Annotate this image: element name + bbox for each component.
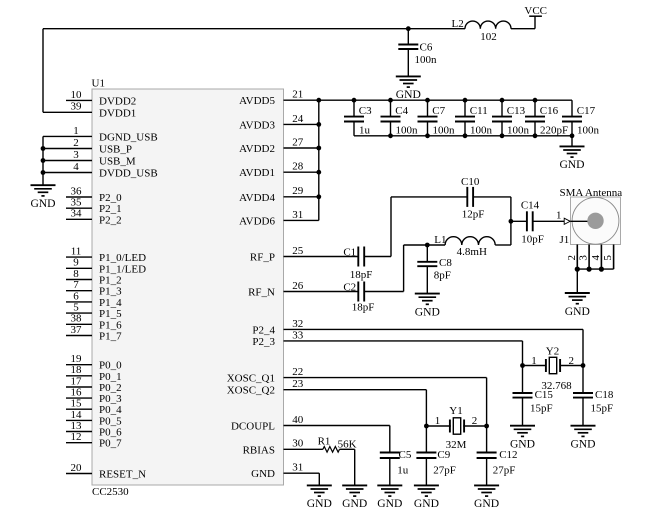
svg-text:C11: C11 <box>470 105 488 117</box>
svg-text:31: 31 <box>292 462 303 474</box>
pin 5 P1_5 <box>66 312 92 314</box>
IC U1 CC2530 body <box>92 89 284 485</box>
svg-text:18pF: 18pF <box>352 302 375 314</box>
svg-text:1: 1 <box>556 210 562 222</box>
junction Y1 pin2 node <box>484 424 489 429</box>
svg-text:Y2: Y2 <box>546 346 559 358</box>
svg-text:P1_0/LED: P1_0/LED <box>99 252 146 264</box>
svg-text:GND: GND <box>30 197 55 210</box>
wire top rail to L2 <box>43 28 465 30</box>
junction antenna bus <box>599 267 604 272</box>
ground C9 <box>414 485 439 496</box>
svg-text:AVDD1: AVDD1 <box>239 167 275 179</box>
capacitor C16 <box>525 100 545 136</box>
svg-text:1u: 1u <box>397 464 409 476</box>
junction C17 bottom <box>570 133 575 138</box>
svg-text:P1_7: P1_7 <box>99 331 122 343</box>
junction cap top <box>533 98 538 103</box>
pin 18 P0_1 <box>66 375 92 377</box>
svg-text:USB_P: USB_P <box>99 144 132 156</box>
pin 20 RESET_N <box>66 473 92 475</box>
svg-text:GND: GND <box>251 468 275 480</box>
svg-text:C1: C1 <box>343 246 356 258</box>
wire P2_4 down to Y2 pin2 <box>582 329 584 365</box>
svg-text:RESET_N: RESET_N <box>99 469 146 481</box>
wire USB ground vertical <box>42 136 44 185</box>
svg-text:AVDD5: AVDD5 <box>239 95 275 107</box>
junction node T <box>509 219 514 224</box>
svg-text:L1: L1 <box>434 234 446 246</box>
svg-text:27pF: 27pF <box>493 464 516 476</box>
junction pin2 <box>41 146 46 151</box>
wire L2 to VCC <box>511 28 535 30</box>
svg-text:VCC: VCC <box>524 5 547 17</box>
pin 36 P2_0 <box>66 196 92 198</box>
junction cap bottom <box>533 133 538 138</box>
svg-text:DVDD1: DVDD1 <box>99 107 136 119</box>
svg-text:100n: 100n <box>396 124 419 136</box>
wire C10 right down to L1 <box>510 197 512 245</box>
svg-text:102: 102 <box>480 31 497 43</box>
junction cap top <box>500 98 505 103</box>
wire pin23 XOSC_Q2 <box>284 389 427 391</box>
svg-text:AVDD2: AVDD2 <box>239 143 275 155</box>
crystal Y2 <box>546 357 560 373</box>
pin 38 P1_6 <box>66 323 92 325</box>
svg-text:P0_6: P0_6 <box>99 427 122 439</box>
svg-text:100n: 100n <box>507 124 530 136</box>
svg-text:P1_2: P1_2 <box>99 275 122 287</box>
svg-text:P1_4: P1_4 <box>99 297 122 309</box>
wire Y1 pin2 <box>463 425 486 427</box>
svg-text:32: 32 <box>292 318 303 330</box>
wire pin30 RBIAS <box>284 448 323 450</box>
wire VCC vertical from top rail to pin 39 <box>42 29 44 113</box>
junction AVDD bus <box>316 194 321 199</box>
wire pin31 GND <box>284 472 320 474</box>
pin 12 P0_7 <box>66 442 92 444</box>
svg-text:L2: L2 <box>452 18 464 30</box>
junction C6/VCC rail <box>406 26 411 31</box>
capacitor C8 <box>417 245 437 294</box>
pin 15 P0_4 <box>66 408 92 410</box>
ground R1 <box>342 485 367 496</box>
svg-text:DVDD_USB: DVDD_USB <box>99 168 158 180</box>
svg-text:RF_P: RF_P <box>250 252 275 264</box>
wire pin31 ground vertical <box>318 473 320 485</box>
svg-text:GND: GND <box>307 497 332 510</box>
pin 16 P0_3 <box>66 397 92 399</box>
pin 35 P2_1 <box>66 207 92 209</box>
wire pin1 DGND_USB <box>43 135 92 137</box>
inductor L1 <box>445 237 495 245</box>
junction cap top <box>352 98 357 103</box>
svg-text:27pF: 27pF <box>433 464 456 476</box>
svg-text:AVDD3: AVDD3 <box>239 119 275 131</box>
svg-text:33: 33 <box>292 329 304 341</box>
svg-text:P1_3: P1_3 <box>99 286 122 298</box>
svg-text:C2: C2 <box>343 281 356 293</box>
svg-text:1: 1 <box>531 355 537 367</box>
svg-text:31: 31 <box>292 209 303 221</box>
wire C17 to ground <box>571 136 573 147</box>
svg-text:10pF: 10pF <box>521 233 544 245</box>
pin 9 P1_1/LED <box>66 267 92 269</box>
VCC stub <box>534 16 536 29</box>
svg-text:220pF: 220pF <box>540 124 568 136</box>
wire pin32 P2_4 <box>284 328 584 330</box>
svg-text:GND: GND <box>342 497 367 510</box>
svg-text:GND: GND <box>565 305 590 318</box>
svg-text:C16: C16 <box>540 105 559 117</box>
junction Y2 pin1 node <box>520 363 525 368</box>
wire L1 node left <box>404 244 446 246</box>
capacitor C4 <box>381 100 401 136</box>
wire antenna bus to ground <box>576 269 578 293</box>
svg-text:Y1: Y1 <box>449 405 462 417</box>
pin 8 P1_2 <box>66 279 92 281</box>
svg-text:30: 30 <box>292 438 304 450</box>
svg-text:38: 38 <box>71 313 83 325</box>
svg-text:23: 23 <box>292 378 304 390</box>
capacitor C11 <box>455 100 475 136</box>
wire AVDD top rail <box>284 99 573 101</box>
junction cap top <box>463 98 468 103</box>
capacitor C6 <box>398 29 418 77</box>
svg-text:18pF: 18pF <box>350 269 373 281</box>
svg-text:C14: C14 <box>521 200 540 212</box>
wire Y1 pin1 <box>426 425 450 427</box>
wire pin4 DVDD_USB <box>43 172 92 174</box>
wire pin22 XOSC_Q1 <box>284 377 487 379</box>
wire pin39 DVDD1 <box>43 111 92 113</box>
junction antenna bus <box>575 267 580 272</box>
svg-text:C7: C7 <box>432 105 445 117</box>
resistor R1 <box>323 447 340 453</box>
connector J1 SMA antenna <box>571 197 621 245</box>
svg-text:100n: 100n <box>415 54 438 66</box>
capacitor C3 <box>344 100 364 136</box>
junction AVDD bus <box>316 122 321 127</box>
svg-text:4: 4 <box>73 161 79 173</box>
svg-text:1: 1 <box>73 125 79 137</box>
svg-text:100n: 100n <box>577 124 600 136</box>
svg-text:U1: U1 <box>92 78 105 90</box>
wire C2 up to L1 node <box>403 245 405 292</box>
svg-text:2: 2 <box>569 355 575 367</box>
svg-text:RBIAS: RBIAS <box>243 444 275 456</box>
crystal Y1 <box>450 418 464 434</box>
svg-text:XOSC_Q2: XOSC_Q2 <box>227 385 275 397</box>
svg-text:GND: GND <box>377 497 402 510</box>
pin 7 P1_3 <box>66 290 92 292</box>
ground decoupling row <box>560 146 585 157</box>
junction cap bottom <box>425 133 430 138</box>
ground C6 <box>396 76 421 87</box>
wire XOSC_Q1 down to Y1 pin2 <box>486 378 488 426</box>
ground USB <box>31 185 56 196</box>
svg-text:21: 21 <box>292 89 303 101</box>
wire XOSC_Q2 down to Y1 pin1 <box>425 390 427 426</box>
svg-text:J1: J1 <box>560 234 570 246</box>
svg-text:P1_1/LED: P1_1/LED <box>99 263 146 275</box>
junction Y2 pin2 node <box>581 363 586 368</box>
wire pin40 DCOUPL <box>284 425 390 427</box>
ground pin31 <box>307 485 332 496</box>
svg-text:9: 9 <box>73 257 79 269</box>
pin 37 P1_7 <box>66 335 92 337</box>
antenna input arrow <box>564 218 570 224</box>
svg-text:GND: GND <box>474 497 499 510</box>
capacitor C18 <box>573 366 593 426</box>
svg-text:2: 2 <box>472 415 478 427</box>
svg-text:29: 29 <box>292 185 304 197</box>
svg-text:P2_0: P2_0 <box>99 192 122 204</box>
capacitor C12 <box>477 426 497 485</box>
svg-text:C8: C8 <box>439 257 452 269</box>
junction AVDD bus <box>316 98 321 103</box>
junction cap top <box>388 98 393 103</box>
wire C1 up to C10 <box>390 197 392 257</box>
wire antenna ground bus <box>577 268 613 270</box>
svg-text:C9: C9 <box>437 449 450 461</box>
antenna pin 3 lead <box>588 245 590 270</box>
ground C18 <box>571 426 596 437</box>
wire L1 right <box>495 244 511 246</box>
wire R1 to ground <box>340 448 355 450</box>
pin 11 P1_0/LED <box>66 256 92 258</box>
wire Y2 pin1 <box>523 365 546 367</box>
pin 19 P0_0 <box>66 364 92 366</box>
pin 34 P2_2 <box>66 218 92 220</box>
svg-text:4.8mH: 4.8mH <box>457 246 487 258</box>
svg-text:2: 2 <box>566 255 578 261</box>
wire AVDD pin to bus <box>284 123 319 125</box>
capacitor C1 <box>284 247 392 267</box>
svg-text:25: 25 <box>292 245 304 257</box>
svg-text:15: 15 <box>71 398 83 410</box>
svg-text:P1_5: P1_5 <box>99 308 122 320</box>
capacitor C14 <box>511 211 571 231</box>
junction cap bottom <box>388 133 393 138</box>
capacitor C10 <box>391 187 511 207</box>
svg-text:12pF: 12pF <box>462 208 485 220</box>
wire Y2 pin2 <box>560 365 583 367</box>
wire decoupling bottom rail <box>354 135 572 137</box>
svg-text:SMA Antenna: SMA Antenna <box>560 187 623 199</box>
pin 17 P0_2 <box>66 386 92 388</box>
wire pin3 USB_M <box>43 160 92 162</box>
svg-text:22: 22 <box>292 366 303 378</box>
svg-text:34: 34 <box>71 208 83 220</box>
svg-text:C12: C12 <box>499 449 517 461</box>
svg-text:DVDD2: DVDD2 <box>99 95 136 107</box>
svg-text:USB_M: USB_M <box>99 156 136 168</box>
svg-text:AVDD4: AVDD4 <box>239 192 275 204</box>
svg-text:1: 1 <box>435 415 441 427</box>
svg-text:27: 27 <box>292 136 304 148</box>
svg-text:GND: GND <box>570 438 595 451</box>
svg-text:GND: GND <box>414 497 439 510</box>
junction L1/C8 node <box>425 243 430 248</box>
ground C15 <box>510 426 535 437</box>
svg-text:C3: C3 <box>359 105 372 117</box>
wire pin33 P2_3 <box>284 340 523 342</box>
svg-text:1u: 1u <box>359 124 371 136</box>
svg-text:39: 39 <box>71 101 83 113</box>
svg-text:RF_N: RF_N <box>248 287 275 299</box>
svg-text:8: 8 <box>73 268 79 280</box>
svg-text:20: 20 <box>71 462 83 474</box>
svg-text:P0_7: P0_7 <box>99 438 122 450</box>
svg-text:GND: GND <box>559 158 584 171</box>
antenna pin 4 lead <box>600 245 602 270</box>
svg-text:P0_4: P0_4 <box>99 404 122 416</box>
pin 13 P0_6 <box>66 431 92 433</box>
svg-text:P2_2: P2_2 <box>99 214 122 226</box>
svg-text:11: 11 <box>71 246 82 258</box>
ground C5 <box>377 485 402 496</box>
svg-text:C4: C4 <box>395 105 408 117</box>
svg-text:15pF: 15pF <box>591 402 614 414</box>
svg-text:28: 28 <box>292 161 304 173</box>
svg-text:DCOUPL: DCOUPL <box>231 421 275 433</box>
capacitor C9 <box>416 426 436 485</box>
svg-text:GND: GND <box>415 305 440 318</box>
pin 14 P0_5 <box>66 419 92 421</box>
junction cap bottom <box>463 133 468 138</box>
svg-text:18: 18 <box>71 364 83 376</box>
ground antenna <box>565 293 590 304</box>
svg-text:C5: C5 <box>399 449 412 461</box>
wire AVDD pin to bus <box>284 147 319 149</box>
svg-text:GND: GND <box>396 88 421 101</box>
svg-text:5: 5 <box>602 255 614 261</box>
svg-text:3: 3 <box>73 149 79 161</box>
svg-text:13: 13 <box>71 420 83 432</box>
svg-text:40: 40 <box>292 414 304 426</box>
junction Y1 pin1 node <box>424 424 429 429</box>
svg-text:P0_1: P0_1 <box>99 371 122 383</box>
svg-text:C18: C18 <box>595 389 614 401</box>
svg-text:3: 3 <box>578 255 590 261</box>
svg-text:26: 26 <box>292 280 304 292</box>
svg-text:R1: R1 <box>318 436 331 448</box>
svg-text:CC2530: CC2530 <box>92 486 129 498</box>
junction pin3 <box>41 158 46 163</box>
antenna pin 2 lead <box>576 245 578 270</box>
svg-text:37: 37 <box>71 324 83 336</box>
svg-text:15pF: 15pF <box>530 402 553 414</box>
junction pin4 <box>41 170 46 175</box>
junction AVDD bus <box>316 170 321 175</box>
capacitor C15 <box>513 366 533 426</box>
svg-text:10: 10 <box>71 89 83 101</box>
wire AVDD pin to bus <box>284 219 319 221</box>
wire P2_3 down to Y2 pin1 <box>522 341 524 366</box>
junction cap bottom <box>500 133 505 138</box>
svg-text:AVDD6: AVDD6 <box>239 215 275 227</box>
svg-text:36: 36 <box>71 185 83 197</box>
svg-text:C6: C6 <box>420 41 433 53</box>
svg-text:C15: C15 <box>535 389 554 401</box>
ground C8 <box>415 294 440 305</box>
capacitor C5 <box>380 426 400 486</box>
svg-text:DGND_USB: DGND_USB <box>99 131 158 143</box>
svg-text:C10: C10 <box>461 176 480 188</box>
antenna pin 5 lead <box>613 245 615 270</box>
svg-text:100n: 100n <box>470 124 493 136</box>
wire AVDD pin to bus <box>284 196 319 198</box>
pin 6 P1_4 <box>66 301 92 303</box>
svg-text:XOSC_Q1: XOSC_Q1 <box>227 373 275 385</box>
capacitor C7 <box>418 100 438 136</box>
svg-text:C17: C17 <box>577 105 596 117</box>
svg-text:7: 7 <box>73 279 79 291</box>
svg-text:2: 2 <box>73 137 79 149</box>
svg-text:P2_4: P2_4 <box>252 324 275 336</box>
svg-text:24: 24 <box>292 113 304 125</box>
svg-text:C13: C13 <box>507 105 526 117</box>
svg-text:5: 5 <box>73 302 79 314</box>
svg-text:4: 4 <box>590 255 602 261</box>
wire AVDD bus vertical <box>318 100 320 220</box>
junction cap top <box>425 98 430 103</box>
svg-text:P2_3: P2_3 <box>252 336 275 348</box>
capacitor C2 <box>284 282 404 302</box>
svg-text:12: 12 <box>71 431 82 443</box>
svg-text:6: 6 <box>73 290 79 302</box>
wire pin2 USB_P <box>43 148 92 150</box>
wire AVDD pin to bus <box>284 171 319 173</box>
pin 10 DVDD2 <box>66 99 92 101</box>
svg-text:P1_6: P1_6 <box>99 319 122 331</box>
inductor L2 <box>465 21 511 29</box>
VCC bar <box>529 15 542 17</box>
svg-text:8pF: 8pF <box>434 270 451 282</box>
capacitor C13 <box>492 100 512 136</box>
junction antenna bus <box>587 267 592 272</box>
capacitor C17 <box>562 100 582 136</box>
wire R1 ground vertical <box>354 449 356 485</box>
svg-text:100n: 100n <box>433 124 456 136</box>
junction AVDD bus <box>316 146 321 151</box>
ground C12 <box>474 485 499 496</box>
